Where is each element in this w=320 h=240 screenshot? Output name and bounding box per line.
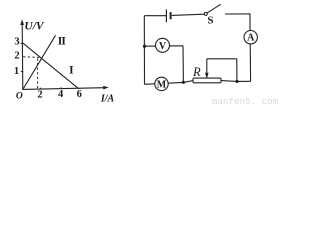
svg-text:manfen5. com: manfen5. com bbox=[212, 96, 279, 106]
svg-text:O: O bbox=[16, 91, 23, 101]
svg-text:I: I bbox=[69, 65, 74, 77]
svg-text:3: 3 bbox=[14, 37, 19, 48]
svg-text:6: 6 bbox=[77, 89, 82, 100]
svg-text:A: A bbox=[247, 33, 255, 44]
svg-text:S: S bbox=[207, 14, 213, 26]
svg-text:M: M bbox=[157, 79, 167, 90]
svg-text:I/A: I/A bbox=[100, 94, 115, 105]
svg-text:U/V: U/V bbox=[24, 21, 45, 33]
svg-text:1: 1 bbox=[14, 66, 19, 77]
svg-text:2: 2 bbox=[14, 50, 19, 61]
svg-text:V: V bbox=[159, 41, 167, 52]
svg-text:2: 2 bbox=[37, 89, 42, 100]
svg-text:4: 4 bbox=[58, 89, 64, 100]
svg-text:R: R bbox=[192, 65, 201, 79]
svg-text:II: II bbox=[58, 36, 67, 48]
